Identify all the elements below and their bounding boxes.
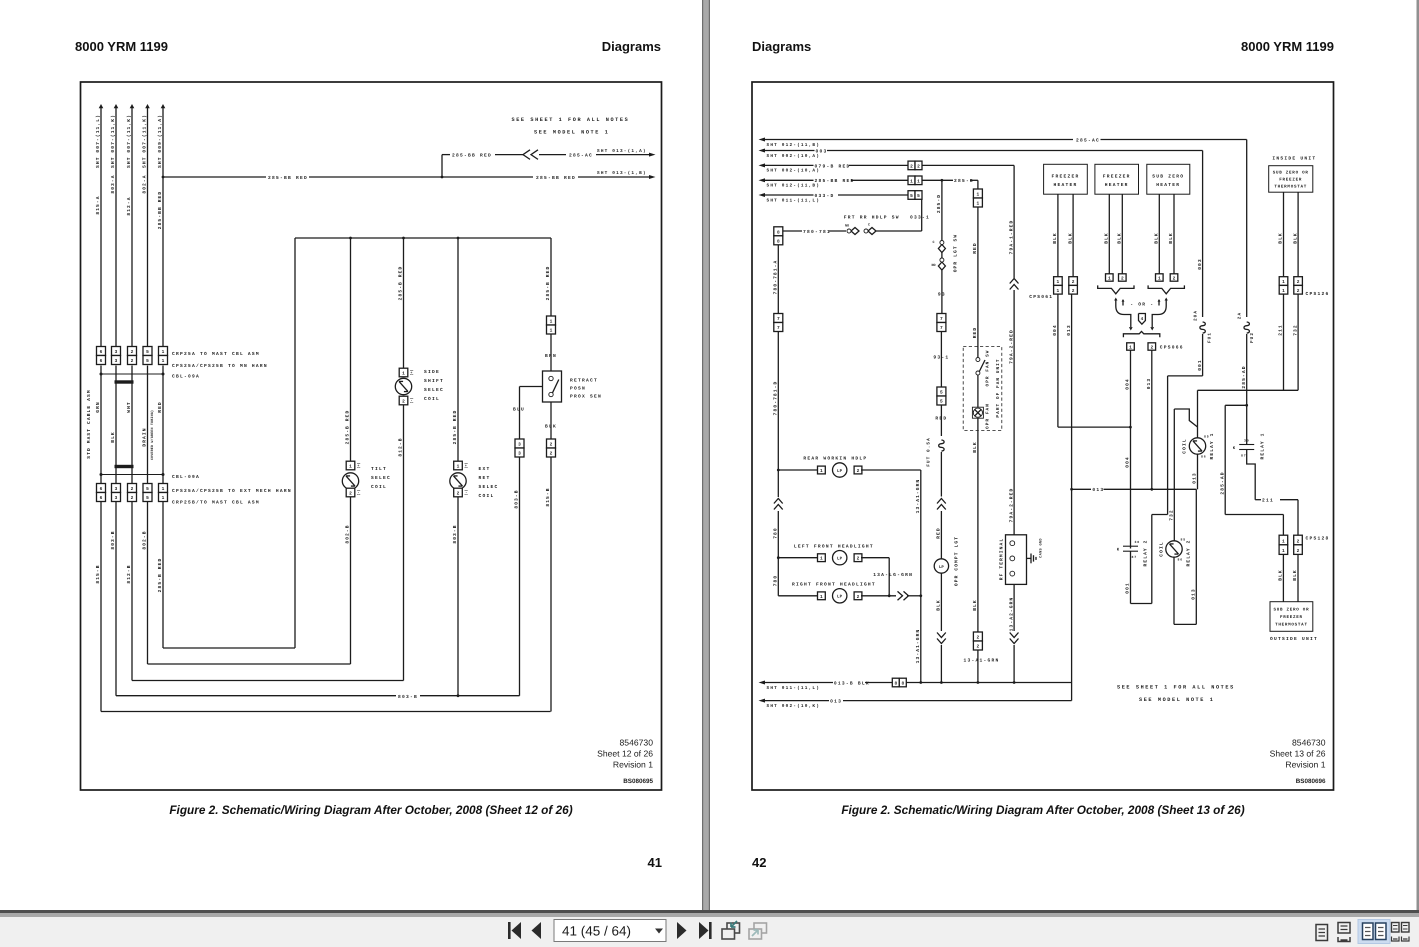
cable sheath line CBL-09A (upper) <box>100 373 200 380</box>
svg-text:780: 780 <box>773 575 779 587</box>
wire 802-B bottom horizontal <box>148 663 351 665</box>
wire 285-B RED drop to tilt coil <box>345 238 351 461</box>
svg-text:RED: RED <box>935 416 947 422</box>
svg-text:8: 8 <box>901 681 904 687</box>
svg-text:013: 013 <box>1092 487 1104 493</box>
svg-text:RIGHT FRONT HEADLIGHT: RIGHT FRONT HEADLIGHT <box>792 582 876 588</box>
wire 732 zigzag branch to relay 2 coil <box>1169 409 1198 541</box>
svg-text:285-B RED: 285-B RED <box>345 410 351 445</box>
svg-text:1: 1 <box>1158 277 1161 282</box>
svg-text:1: 1 <box>1129 346 1132 351</box>
svg-text:SEE MODEL NOTE 1: SEE MODEL NOTE 1 <box>1139 697 1214 703</box>
svg-text:BS080695: BS080695 <box>623 778 653 785</box>
svg-text:2: 2 <box>131 486 134 492</box>
svg-text:812-A: 812-A <box>126 196 132 215</box>
svg-text:2: 2 <box>131 495 134 501</box>
svg-text:285-B RED: 285-B RED <box>452 410 458 445</box>
wire 803-A riser with sheet reference arrow SHT 007-(11,K) <box>110 104 118 347</box>
wire BLK labels on fan ground wire <box>972 441 978 611</box>
svg-text:CANS GND: CANS GND <box>1039 538 1044 558</box>
wire 285-AD from FU2 to junction <box>1241 334 1248 407</box>
svg-text:2: 2 <box>550 442 553 448</box>
svg-text:BLK: BLK <box>1117 232 1123 244</box>
right page schematic border frame <box>752 82 1334 790</box>
svg-text:HEATER: HEATER <box>1105 182 1129 188</box>
svg-text:BS080696: BS080696 <box>1296 778 1326 785</box>
svg-text:6: 6 <box>100 495 103 501</box>
svg-text:SHT 013-(1,A): SHT 013-(1,A) <box>597 148 647 154</box>
svg-text:285-B RED: 285-B RED <box>157 558 163 593</box>
svg-text:RED: RED <box>936 527 942 539</box>
right window edge strip <box>1417 0 1419 910</box>
wire 812-B bottom horizontal <box>132 680 404 682</box>
svg-text:285-AD: 285-AD <box>1241 365 1247 388</box>
wire 285-AC top run from SHT 012-(11,B) <box>759 137 1247 147</box>
wires BLK from sub zero heater <box>1154 194 1175 274</box>
svg-text:803-A: 803-A <box>110 174 116 193</box>
heater FREEZER HEATER (middle) <box>1095 164 1139 194</box>
wire 285-B RED drop to ext ret coil <box>452 238 458 461</box>
svg-text:2: 2 <box>977 644 980 650</box>
ground bus 013-B BLK to SHT 011-(11,L) <box>759 680 1072 690</box>
svg-text:1: 1 <box>910 179 913 184</box>
svg-text:SELEC: SELEC <box>371 475 391 481</box>
svg-text:004: 004 <box>1052 324 1058 336</box>
svg-text:CRP25B/TO MAST CBL ASM: CRP25B/TO MAST CBL ASM <box>172 499 260 505</box>
svg-text:5: 5 <box>910 194 913 199</box>
svg-text:79A-1-RED: 79A-1-RED <box>1008 220 1014 255</box>
svg-text:SELEC: SELEC <box>479 484 499 490</box>
svg-text:INSIDE UNIT: INSIDE UNIT <box>1272 156 1316 162</box>
svg-text:285-BB RED: 285-BB RED <box>157 191 163 230</box>
wire 803-B lower run from connector to bottom corner <box>110 502 116 696</box>
svg-text:COVERED W/GREEN TUBING): COVERED W/GREEN TUBING) <box>150 410 155 460</box>
node junction of 285-BB RED riser and horizontal feed <box>162 176 165 179</box>
svg-text:BLK: BLK <box>1154 232 1160 244</box>
svg-text:003: 003 <box>1197 258 1203 270</box>
svg-text:2: 2 <box>917 164 920 170</box>
svg-text:1: 1 <box>1108 277 1111 282</box>
svg-text:812-B: 812-B <box>398 437 404 456</box>
connector pins 2/2 on fan ground wire <box>964 632 1000 664</box>
svg-text:2: 2 <box>1297 539 1300 545</box>
wire 803-B from ext ret coil down to junction <box>452 497 458 696</box>
svg-text:013: 013 <box>1066 324 1072 336</box>
svg-text:BLK: BLK <box>545 424 557 430</box>
wire 780-781-A left riser with pins 7/7 <box>773 245 779 470</box>
svg-text:(-): (-) <box>410 397 415 403</box>
svg-text:THERMOSTAT: THERMOSTAT <box>1274 184 1307 189</box>
wire RED fan feed drop with pins 1/1 <box>972 180 982 357</box>
label CPS25A/CPS25B TO MN HARN <box>172 363 268 369</box>
svg-text:Revision 1: Revision 1 <box>1285 760 1325 770</box>
wires BLK from CPS128 to outside thermostat <box>1278 554 1299 601</box>
svg-text:THERMOSTAT: THERMOSTAT <box>1275 622 1308 627</box>
svg-text:SEE SHEET 1 FOR ALL NOTES: SEE SHEET 1 FOR ALL NOTES <box>512 117 630 123</box>
splice CPS061 chevrons on 79A wire <box>1010 279 1019 535</box>
svg-text:1: 1 <box>457 465 460 470</box>
svg-text:CPS126: CPS126 <box>1306 291 1330 297</box>
svg-text:803-B: 803-B <box>110 530 116 549</box>
svg-text:004: 004 <box>1125 378 1131 390</box>
solenoid SIDE SHIFT SELEC COIL <box>395 368 444 405</box>
svg-text:780-781-A: 780-781-A <box>773 260 779 295</box>
svg-text:2: 2 <box>457 491 460 497</box>
wire 285-BB RED upper branch to 285-AC sheet 013-(1,A) <box>441 148 656 179</box>
connector pins 8|8 on ground bus <box>892 678 906 687</box>
wire 815-B bottom horizontal to BLK pin <box>101 711 551 713</box>
svg-text:BLK: BLK <box>936 599 942 611</box>
svg-text:780-781: 780-781 <box>803 229 831 235</box>
wire 285-B RED drop to side shift coil <box>398 238 404 368</box>
svg-text:LP: LP <box>939 565 944 570</box>
svg-text:5: 5 <box>146 487 149 492</box>
wire 285-BB RED horizontal run to sheet 013-(1,B) <box>163 170 656 181</box>
svg-text:SHT 009-(11,A): SHT 009-(11,A) <box>157 114 163 168</box>
junction block RF TERMINAL with CANS GND <box>999 535 1044 585</box>
svg-text:87: 87 <box>1132 555 1138 559</box>
svg-text:2A: 2A <box>1237 312 1242 319</box>
fuse FU1 20A <box>1194 310 1213 343</box>
wire RED to cab fuse <box>935 405 947 436</box>
left page document number block 8546730 Sheet 12 of 26 Revision 1 <box>597 738 653 786</box>
svg-text:(+): (+) <box>464 462 469 468</box>
svg-text:SHT 011-(11,L): SHT 011-(11,L) <box>767 685 821 691</box>
svg-text:FREEZER: FREEZER <box>1052 173 1080 179</box>
svg-text:211: 211 <box>1278 324 1284 336</box>
svg-text:SHT 013-(1,B): SHT 013-(1,B) <box>597 170 647 176</box>
svg-text:3: 3 <box>518 442 521 448</box>
wire 812-B lower run from connector to bottom corner <box>126 502 132 681</box>
svg-text:(+): (+) <box>410 369 415 375</box>
shield bar upper on mast cable <box>115 380 134 383</box>
svg-text:001: 001 <box>1125 582 1131 594</box>
wire 211 from relay 1 contact to CPS128 pin 2 <box>1247 450 1298 536</box>
svg-text:285-BB RED: 285-BB RED <box>268 175 308 181</box>
svg-text:RELAY 1: RELAY 1 <box>1209 433 1215 460</box>
wire BLK from prox sensor to pin 2 <box>545 402 557 439</box>
wire 802-B lower run from connector to bottom corner <box>142 502 148 665</box>
wire 285-AC drop to fuse FU2 <box>1246 140 1248 318</box>
wire 802-A riser with sheet reference arrow SHT 007-(11,K) <box>142 104 150 347</box>
connector pins 2/2 on BLK wire <box>547 439 556 457</box>
splice chevrons on left riser below work lamp <box>773 470 783 558</box>
svg-text:2: 2 <box>131 358 134 364</box>
wire 013 from relay 1 coil to bus <box>1192 454 1198 489</box>
svg-text:87: 87 <box>1241 454 1247 458</box>
svg-text:GRN: GRN <box>95 401 101 413</box>
svg-text:FREEZER: FREEZER <box>1279 177 1302 182</box>
connector pins 5|5 on 033-D <box>908 191 922 200</box>
svg-text:033-1: 033-1 <box>910 214 930 220</box>
svg-text:7: 7 <box>777 326 780 331</box>
wire 285-D drop to operator light switch <box>936 180 942 240</box>
wire 285-B RED drop to retract prox sensor <box>545 238 551 316</box>
wire 003 drop to fuse FU1 <box>1197 151 1203 318</box>
connector pins 3/3 on BLU wire <box>515 439 524 457</box>
svg-text:285-BB RED: 285-BB RED <box>815 178 855 184</box>
relay 1 coil with wire 732 feed <box>1182 293 1299 459</box>
svg-text:86: 86 <box>1201 455 1207 459</box>
wire 812-B from side shift coil down <box>398 405 404 681</box>
svg-text:LP: LP <box>837 469 843 474</box>
svg-text:CBL-09A: CBL-09A <box>172 474 200 480</box>
svg-text:2: 2 <box>550 451 553 457</box>
wire 79A-2-RED labels <box>1008 329 1014 522</box>
svg-text:SHT 007-(11,L): SHT 007-(11,L) <box>95 114 101 168</box>
svg-text:5: 5 <box>146 350 149 355</box>
svg-text:003: 003 <box>816 148 828 154</box>
svg-text:013: 013 <box>1192 472 1198 484</box>
svg-text:C: C <box>868 223 870 228</box>
wire 13-A2-GRN below RF terminal <box>1008 584 1018 682</box>
left page schematic border frame <box>81 82 662 790</box>
svg-text:1: 1 <box>1057 289 1060 294</box>
wire 013 from relay 2 coil via riser to bus <box>1174 489 1197 624</box>
label STD MAST CABLE ASM (rotated) <box>86 389 92 458</box>
svg-text:1: 1 <box>917 179 920 184</box>
svg-text:RET: RET <box>479 475 491 481</box>
svg-text:SUB ZERO OR: SUB ZERO OR <box>1273 170 1309 175</box>
svg-text:732: 732 <box>1169 509 1175 521</box>
svg-text:SHT 012-(11,B): SHT 012-(11,B) <box>767 183 821 189</box>
svg-text:CPS25A/CPS25B TO MN HARN: CPS25A/CPS25B TO MN HARN <box>172 363 268 369</box>
wire 732 label from CPS126 pin 2 <box>1292 324 1298 336</box>
svg-text:285-BB RED: 285-BB RED <box>452 153 492 159</box>
svg-text:BLU: BLU <box>513 407 525 413</box>
selection brace under sub zero heater pins <box>1148 285 1184 293</box>
svg-text:5: 5 <box>146 496 149 501</box>
svg-text:1: 1 <box>820 595 823 600</box>
wire 815-B lower run from connector to bottom corner <box>95 502 101 712</box>
wire 013 horizontal bus to relay coils <box>1072 487 1197 493</box>
svg-text:2: 2 <box>1297 548 1300 554</box>
svg-text:SHT 011-(11,L): SHT 011-(11,L) <box>767 197 821 203</box>
svg-text:SHT 002-(10,A): SHT 002-(10,A) <box>767 153 821 159</box>
svg-text:079-B RED: 079-B RED <box>815 163 851 169</box>
svg-text:13-A1-GRN: 13-A1-GRN <box>964 658 1000 664</box>
svg-text:30: 30 <box>1244 439 1250 443</box>
svg-text:802-B: 802-B <box>142 530 148 549</box>
svg-text:2: 2 <box>857 594 860 600</box>
svg-text:OPR FAN SW: OPR FAN SW <box>986 350 991 387</box>
svg-text:EXT: EXT <box>479 466 491 472</box>
svg-text:93-1: 93-1 <box>933 355 949 361</box>
svg-text:SHIFT: SHIFT <box>424 378 444 384</box>
note SEE SHEET 1 FOR ALL NOTES / SEE MODEL NOTE 1 <box>512 117 630 136</box>
wire 285-B riser with sheet reference arrow SHT 009-(11,A) <box>157 104 165 347</box>
svg-text:1: 1 <box>1282 280 1285 285</box>
fuse FU2 2A <box>1237 312 1254 343</box>
svg-text:86: 86 <box>1178 558 1184 562</box>
svg-text:285-B RED: 285-B RED <box>398 266 404 301</box>
label CPS25A/CPS25B TO EXT MECH HARN <box>172 488 292 494</box>
svg-text:1: 1 <box>402 372 405 377</box>
svg-text:285-BB RED: 285-BB RED <box>536 175 576 181</box>
svg-text:SHT 012-(11,B): SHT 012-(11,B) <box>767 142 821 148</box>
svg-text:285-AC: 285-AC <box>1076 137 1100 143</box>
svg-text:OPR LGT SW: OPR LGT SW <box>953 234 959 273</box>
svg-text:CPS066: CPS066 <box>1160 345 1184 351</box>
svg-text:TILT: TILT <box>371 466 387 472</box>
wire 79A-1-RED drop from 079-B RED <box>1008 165 1014 278</box>
svg-text:5: 5 <box>940 391 943 396</box>
wires BLK from middle freezer heater <box>1104 194 1123 274</box>
svg-text:285-AC: 285-AC <box>569 153 593 159</box>
svg-text:13-A2-GRN: 13-A2-GRN <box>1008 597 1014 632</box>
connector pins 1|1 on 285-BB RED <box>908 176 922 185</box>
svg-text:8: 8 <box>894 681 897 687</box>
svg-text:79A-2-RED: 79A-2-RED <box>1008 329 1014 364</box>
connector CRP25A/CPS25A pin boxes (top row) <box>97 347 168 365</box>
svg-text:2: 2 <box>1297 288 1300 294</box>
svg-text:85: 85 <box>1181 538 1187 542</box>
svg-text:8546730: 8546730 <box>1292 738 1326 748</box>
svg-text:13A-LG-GRN: 13A-LG-GRN <box>873 572 913 578</box>
wire 004 from CPS061 pin 1 <box>1052 294 1132 428</box>
svg-text:815-A: 815-A <box>95 195 101 214</box>
svg-text:2: 2 <box>1173 276 1176 282</box>
svg-text:BRN: BRN <box>545 353 557 359</box>
svg-text:1: 1 <box>977 193 980 198</box>
svg-text:41 (45 / 64): 41 (45 / 64) <box>562 924 631 939</box>
svg-text:OUTSIDE UNIT: OUTSIDE UNIT <box>1270 636 1318 642</box>
wire 211 from CPS126 pin 1 <box>1278 294 1284 390</box>
svg-text:013: 013 <box>1191 588 1197 600</box>
svg-text:OPR FAN: OPR FAN <box>986 403 991 429</box>
svg-text:BLK: BLK <box>972 441 978 453</box>
svg-text:RELAY 2: RELAY 2 <box>1185 540 1191 567</box>
wire 013 bottom run to SHT 002-(10,K) <box>759 699 1072 709</box>
svg-text:3: 3 <box>115 486 118 492</box>
svg-text:SIDE: SIDE <box>424 369 440 375</box>
svg-text:1: 1 <box>820 469 823 474</box>
svg-text:OPR COMPT LGT: OPR COMPT LGT <box>954 536 960 586</box>
svg-text:2: 2 <box>1072 279 1075 285</box>
svg-text:803-B: 803-B <box>452 524 458 543</box>
wire 001 staircase from FU1 to relay 2 contact <box>1131 334 1203 604</box>
svg-text:1: 1 <box>1282 540 1285 545</box>
svg-text:BLK: BLK <box>1104 232 1110 244</box>
svg-text:812-B: 812-B <box>126 564 132 583</box>
svg-text:COIL: COIL <box>1182 438 1188 453</box>
svg-text:SELEC: SELEC <box>424 387 444 393</box>
svg-text:BLK: BLK <box>1052 232 1058 244</box>
svg-text:SHT 002-(10,A): SHT 002-(10,A) <box>767 168 821 174</box>
sensor RETRACT POSN PROX SEN <box>543 371 602 402</box>
wire 033-D from SHT 011-(11,L) <box>759 193 909 203</box>
motor OPR FAN symbol <box>972 403 990 682</box>
svg-text:SHT 007-(11,K): SHT 007-(11,K) <box>142 114 148 168</box>
svg-text:SEE SHEET 1 FOR ALL NOTES: SEE SHEET 1 FOR ALL NOTES <box>1117 685 1235 691</box>
svg-text:POSN: POSN <box>570 386 586 392</box>
svg-text:2: 2 <box>857 468 860 474</box>
svg-text:033-D: 033-D <box>815 193 835 199</box>
svg-text:LEFT FRONT HEADLIGHT: LEFT FRONT HEADLIGHT <box>794 544 874 550</box>
svg-text:285-D: 285-D <box>936 194 942 213</box>
svg-text:285-AD: 285-AD <box>1219 471 1225 494</box>
svg-text:6: 6 <box>100 358 103 364</box>
svg-text:1: 1 <box>162 487 165 492</box>
svg-text:8546730: 8546730 <box>620 738 654 748</box>
svg-text:1: 1 <box>162 350 165 355</box>
svg-text:SHT 007-(11,K): SHT 007-(11,K) <box>110 114 116 168</box>
selection brace under middle heater pins <box>1098 285 1134 293</box>
svg-text:5: 5 <box>146 359 149 364</box>
connector pins 2|2 on 079-B RED <box>908 161 922 170</box>
svg-text:REAR WORKIN HDLP: REAR WORKIN HDLP <box>803 456 867 462</box>
svg-text:BLK: BLK <box>1292 569 1298 581</box>
thermostat SUB ZERO OR FREEZER THERMOSTAT inside unit <box>1269 156 1317 193</box>
svg-text:30: 30 <box>1135 540 1141 544</box>
shield bar lower on mast cable <box>115 465 134 468</box>
selection arrows up under braces <box>1114 298 1168 307</box>
wire 812-A riser with sheet reference arrow SHT 007-(11,K) <box>126 104 134 347</box>
lamp OPR COMPT LGT <box>934 536 959 586</box>
svg-text:PART OF FAN UNIT: PART OF FAN UNIT <box>996 358 1001 417</box>
svg-text:79A-2-RED: 79A-2-RED <box>1008 488 1014 523</box>
svg-text:CRP25A TO MAST CBL ASM: CRP25A TO MAST CBL ASM <box>172 351 260 357</box>
splice chevrons on compartment light wire <box>937 499 946 510</box>
pins 1 and 2 of middle heater <box>1106 274 1127 282</box>
svg-text:BLK: BLK <box>1168 232 1174 244</box>
svg-text:803-B: 803-B <box>514 489 520 508</box>
svg-text:780: 780 <box>773 527 779 539</box>
svg-text:FUT 0.5A: FUT 0.5A <box>927 437 932 467</box>
heater FREEZER HEATER (left) <box>1044 164 1088 194</box>
svg-text:004: 004 <box>1125 456 1131 468</box>
note shield 4 <box>1139 314 1146 325</box>
svg-text:CPS25A/CPS25B TO EXT MECH HARN: CPS25A/CPS25B TO EXT MECH HARN <box>172 488 292 494</box>
svg-text:FU1: FU1 <box>1208 332 1213 343</box>
svg-text:93: 93 <box>938 292 946 298</box>
svg-text:211: 211 <box>1262 498 1274 504</box>
svg-text:1: 1 <box>162 496 165 501</box>
svg-text:RETRACT: RETRACT <box>570 378 598 384</box>
svg-text:3: 3 <box>115 495 118 501</box>
svg-text:013: 013 <box>1146 378 1152 390</box>
svg-text:13-A1-GRN: 13-A1-GRN <box>915 629 921 664</box>
svg-text:4: 4 <box>1141 317 1144 322</box>
right page document number block 8546730 Sheet 13 of 26 Revision 1 <box>1270 738 1326 786</box>
switch OPR LGT SW <box>931 234 958 314</box>
svg-text:780-781-D: 780-781-D <box>773 381 779 416</box>
wire 004 from CPS066 pin 1 down to relay 2 contact <box>1125 350 1131 548</box>
wire 285-B RED lower run from connector to bottom corner <box>157 502 163 649</box>
wires BLK from left freezer heater to CPS061 <box>1052 194 1073 277</box>
svg-text:013: 013 <box>830 699 842 705</box>
wire 802-B from tilt coil down <box>345 497 351 664</box>
svg-text:STD MAST CABLE ASM: STD MAST CABLE ASM <box>86 389 92 458</box>
svg-text:COIL: COIL <box>479 493 495 499</box>
svg-text:1: 1 <box>977 202 980 207</box>
svg-text:1: 1 <box>1282 289 1285 294</box>
wire 285-B RED distribution bus (left riser and top run) <box>295 237 551 648</box>
lamp RIGHT FRONT HEADLIGHT with wire run <box>778 572 922 603</box>
wire 780 left riser from left headlight to right headlight <box>777 558 779 596</box>
svg-text:C: C <box>932 240 934 245</box>
svg-text:3: 3 <box>518 451 521 457</box>
svg-text:2: 2 <box>402 399 405 405</box>
svg-text:RELAY 1: RELAY 1 <box>1260 433 1266 460</box>
svg-text:3: 3 <box>115 349 118 355</box>
svg-text:285-D: 285-D <box>954 178 974 184</box>
svg-text:815-B: 815-B <box>95 564 101 583</box>
wire 803-B from pin 3 down <box>514 457 520 696</box>
wire 815-A riser with sheet reference arrow SHT 007-(11,L) <box>95 104 103 347</box>
svg-text:(-): (-) <box>464 489 469 495</box>
wire 285-AD branch to CPS128 pin 1 <box>1219 405 1283 535</box>
